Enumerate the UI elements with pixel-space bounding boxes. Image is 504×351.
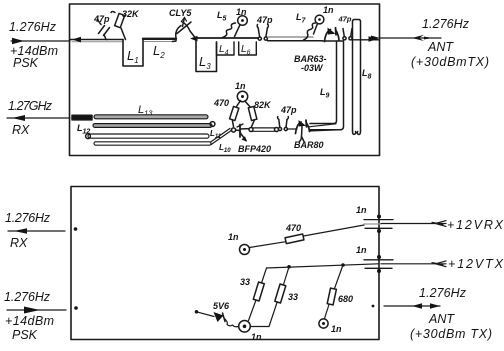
- svg-text:-03W: -03W: [301, 63, 324, 73]
- wire +12VTX external: [381, 263, 446, 265]
- svg-text:ANT: ANT: [428, 312, 455, 326]
- svg-text:32K: 32K: [122, 9, 140, 19]
- wire +12VTX internal: [267, 264, 379, 268]
- resistor R1 32K: [111, 9, 140, 40]
- arrowhead Q1 output: [190, 36, 198, 42]
- capacitor feedthrough 1n (TX bias): [239, 321, 262, 343]
- svg-text:PSK: PSK: [12, 328, 38, 342]
- arrowhead RX terminal: [14, 228, 27, 234]
- diode D2 BAR80: [294, 120, 324, 150]
- arrowhead ANT out: [369, 36, 379, 42]
- wire PSK terminal: [7, 309, 66, 311]
- svg-text:82K: 82K: [254, 100, 272, 110]
- svg-text:1.276Hz: 1.276Hz: [5, 211, 51, 225]
- svg-text:L9: L9: [320, 87, 330, 100]
- svg-text:1n: 1n: [331, 324, 342, 334]
- capacitor C3 47p series: [338, 15, 353, 40]
- microstrip L10 diagonal: [211, 128, 232, 154]
- wire ANT bottom: [384, 305, 440, 307]
- inductor L6 stub: [239, 42, 257, 57]
- svg-text:1.27GHz: 1.27GHz: [8, 99, 53, 113]
- capacitor feedthrough 1n (LNA supply): [235, 81, 248, 102]
- arrowhead PSK in: [12, 38, 24, 44]
- capacitor C4 47p series: [278, 105, 297, 131]
- arrowhead PSK terminal: [24, 307, 40, 314]
- transistor Q2 BFP420: [231, 124, 271, 154]
- capacitor C1 47p: [93, 14, 110, 40]
- terminal arrow TX entry: [72, 37, 81, 43]
- svg-text:47p: 47p: [93, 14, 110, 24]
- arrowhead toward box: [371, 36, 380, 41]
- wire to ANT arrow: [352, 39, 379, 41]
- capacitor C2 47p series: [256, 15, 273, 40]
- microstrip filter bar 2: [93, 122, 215, 128]
- resistor R7 680: [325, 265, 354, 319]
- svg-text:RX: RX: [10, 236, 28, 250]
- microstrip filter bar 3 (L11): [86, 129, 222, 140]
- arrowhead ANT left: [412, 303, 422, 309]
- wire RX output: [7, 117, 70, 119]
- svg-text:L5: L5: [217, 10, 227, 23]
- inductor L3 stub: [196, 39, 217, 72]
- svg-text:1n: 1n: [356, 245, 367, 255]
- resistor R5 33: [240, 268, 267, 321]
- wire BAR63 to cap: [322, 40, 343, 42]
- svg-text:L3: L3: [199, 54, 211, 71]
- transistor Q1 CLY5: [169, 8, 195, 42]
- wire cap to BAR80: [288, 128, 298, 130]
- microstrip L13 bar: [94, 104, 208, 119]
- svg-text:BAR80: BAR80: [294, 140, 324, 150]
- arrowhead +12VTX: [432, 261, 446, 267]
- svg-text:1n: 1n: [356, 205, 367, 215]
- svg-text:33: 33: [288, 292, 298, 302]
- svg-text:1.276Hz: 1.276Hz: [422, 17, 470, 31]
- wire PSK input: [11, 40, 70, 42]
- svg-text:+12VTX: +12VTX: [448, 257, 504, 271]
- svg-text:1n: 1n: [228, 232, 239, 242]
- microstrip Q2 output bar: [249, 128, 279, 132]
- svg-text:L6: L6: [241, 44, 251, 57]
- svg-text:CLY5: CLY5: [169, 8, 192, 18]
- svg-text:BFP420: BFP420: [238, 144, 271, 154]
- inductor L4 stub: [217, 42, 235, 57]
- terminal dot RX: [74, 227, 78, 231]
- terminal dot PSK: [74, 306, 78, 310]
- svg-text:680: 680: [338, 294, 353, 304]
- svg-text:(+30dBmTX): (+30dBmTX): [411, 55, 489, 69]
- wire RX terminal: [8, 230, 65, 232]
- svg-text:470: 470: [285, 223, 301, 233]
- svg-text:L7: L7: [296, 12, 307, 25]
- svg-text:+14dBm: +14dBm: [5, 314, 54, 328]
- svg-text:47p: 47p: [256, 15, 273, 25]
- bottom box outline: [71, 187, 379, 340]
- junction dot B: [341, 263, 345, 267]
- svg-text:ANT: ANT: [427, 40, 454, 54]
- wire BAR80 to L9: [309, 124, 336, 127]
- inductor L7 choke: [296, 12, 316, 40]
- capacitor feedthrough 1n (PA bias): [319, 319, 342, 334]
- svg-text:L10: L10: [219, 143, 231, 154]
- arrowhead toward ant: [412, 35, 424, 41]
- microstrip L12 input bar: [72, 115, 92, 135]
- svg-text:(+30dBm TX): (+30dBm TX): [410, 327, 492, 341]
- wire TX entry inside box: [70, 39, 107, 41]
- diode D3 zener 5V6: [195, 301, 238, 327]
- svg-text:L8: L8: [362, 68, 372, 81]
- svg-text:1.276Hz: 1.276Hz: [4, 290, 51, 304]
- inductor L9 line: [310, 41, 344, 130]
- diode D1 BAR63: [294, 28, 339, 74]
- capacitor feedthrough 1n (Q1 drain): [235, 7, 248, 37]
- svg-text:1n: 1n: [235, 81, 246, 91]
- top box outline: [70, 4, 380, 156]
- wire node to L1: [107, 39, 123, 41]
- svg-text:L2: L2: [153, 43, 165, 60]
- capacitor feedthrough 1n (RX bias): [228, 232, 250, 255]
- svg-text:1n: 1n: [323, 5, 334, 15]
- svg-text:47p: 47p: [338, 15, 352, 24]
- wire CLY5 output: [196, 37, 258, 39]
- wire +12VRX: [381, 223, 446, 225]
- terminal dot ANT: [372, 305, 375, 308]
- capacitor feedthrough 1n +12VRX wall: [356, 205, 393, 233]
- inductor L8 line: [353, 20, 372, 135]
- svg-text:1.276Hz: 1.276Hz: [419, 286, 467, 300]
- svg-text:RX: RX: [12, 123, 30, 137]
- resistor R4 470: [250, 223, 365, 248]
- svg-text:+12VRX: +12VRX: [447, 218, 504, 232]
- arrowhead RX out: [12, 115, 25, 121]
- arrowhead +12VRX: [432, 221, 446, 227]
- svg-text:5V6: 5V6: [213, 301, 230, 311]
- resistor R2 470: [213, 98, 241, 127]
- junction dot A: [287, 265, 291, 269]
- svg-text:L1: L1: [127, 48, 139, 65]
- svg-text:1n: 1n: [251, 332, 262, 342]
- resistor R3 82K: [245, 100, 272, 127]
- inductor L5 choke: [217, 10, 236, 38]
- resistor R6 33: [251, 267, 298, 327]
- inductor L1 stub: [123, 40, 143, 67]
- svg-text:47p: 47p: [280, 105, 297, 115]
- wire microstrip to relay: [268, 36, 314, 38]
- wire ANT top: [380, 37, 441, 39]
- svg-text:1.276Hz: 1.276Hz: [9, 20, 57, 34]
- capacitor feedthrough 1n (TX line): [314, 5, 335, 34]
- wire L2: [143, 38, 176, 40]
- capacitor feedthrough 1n +12VTX wall: [356, 245, 393, 273]
- svg-text:L4: L4: [219, 44, 229, 57]
- arrowhead ANT right: [430, 303, 440, 309]
- microstrip filter bar 4: [94, 142, 211, 145]
- svg-text:PSK: PSK: [13, 56, 39, 70]
- svg-text:470: 470: [213, 98, 229, 108]
- svg-text:33: 33: [240, 277, 250, 287]
